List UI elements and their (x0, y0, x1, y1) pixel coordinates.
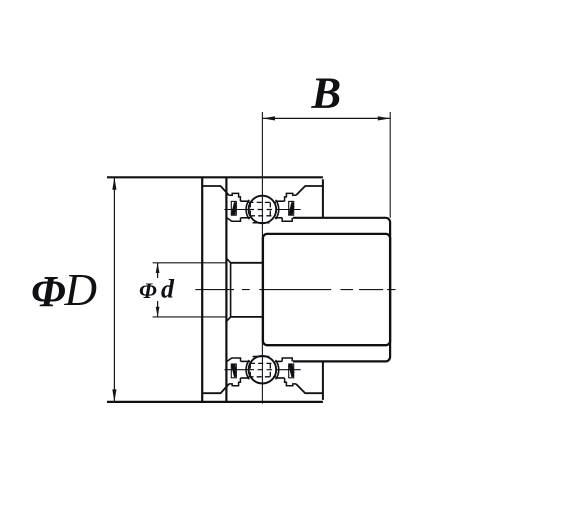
raceway arc left (246, 200, 249, 219)
shield hatch strip left (231, 201, 236, 215)
bore chamfer diagonal top (226, 258, 230, 263)
seal groove contour top-left (229, 193, 240, 201)
outer ring face relief bottom-left (202, 384, 229, 393)
top ball assembly (224, 193, 300, 223)
extension line B right (389, 112, 391, 218)
seal groove contour top-right (285, 193, 296, 201)
raceway arc right (276, 200, 279, 219)
bore chamfer diagonal bottom (226, 317, 230, 322)
seal groove contour bottom-left (226, 218, 240, 222)
svg-text:D: D (64, 265, 98, 315)
svg-text:Φ: Φ (31, 267, 66, 316)
extension line B left (ball centerline vertical) (261, 112, 263, 404)
dimension B line with arrows (263, 117, 391, 119)
outer ring right face top (322, 179, 324, 218)
land line bottom-left (241, 217, 251, 219)
dimension PhiD line with arrows (113, 177, 115, 402)
inner ring extension sleeve (293, 218, 390, 362)
outer ring OD bottom line (with PhiD extension) (107, 401, 323, 403)
land line top-right (276, 200, 285, 202)
ball circle (249, 196, 277, 224)
outer ring face relief top-left (202, 186, 229, 195)
outer ring face relief bottom-right (296, 384, 323, 393)
outer ring left face (201, 177, 203, 402)
outer ring right face bottom (322, 361, 324, 400)
svg-text:B: B (311, 68, 342, 118)
shaft collar rounded rectangle (263, 234, 390, 345)
svg-text:d: d (161, 275, 175, 304)
ball horizontal centerline (224, 209, 248, 211)
bore bottom line (231, 316, 263, 318)
dimension Phid line with arrows (157, 263, 159, 278)
land line bottom-right (275, 217, 282, 219)
cage solid edge (253, 222, 270, 224)
outer ring OD top line (with PhiD extension) (107, 176, 323, 178)
seal groove contour bottom-right (282, 218, 292, 221)
cage hidden dashed lines (249, 201, 277, 203)
land line top-left (240, 200, 249, 202)
outer ring face relief top-right (296, 186, 323, 195)
bore chamfer vertical (230, 263, 232, 317)
bottom ball assembly (mirror) (224, 356, 300, 386)
bore top line (231, 262, 263, 264)
svg-text:Φ: Φ (139, 278, 157, 303)
extension lines Phid (153, 262, 227, 264)
axis centerline (195, 289, 395, 291)
shield hatch strip right (289, 201, 294, 215)
inner ring left face (225, 177, 227, 402)
